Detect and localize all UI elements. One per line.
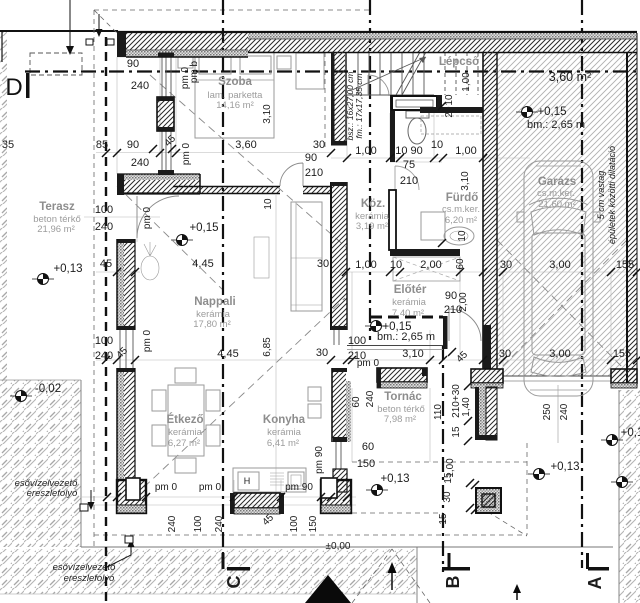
svg-text:C: C bbox=[224, 576, 244, 589]
svg-text:90: 90 bbox=[127, 58, 139, 70]
svg-text:3,00: 3,00 bbox=[549, 259, 570, 271]
svg-text:85: 85 bbox=[96, 139, 108, 151]
svg-text:35: 35 bbox=[2, 139, 14, 151]
svg-text:+0,15: +0,15 bbox=[537, 106, 566, 118]
svg-text:pm b: pm b bbox=[189, 60, 200, 83]
svg-text:B: B bbox=[443, 576, 463, 589]
svg-text:3,60 m²: 3,60 m² bbox=[549, 70, 591, 84]
svg-text:240: 240 bbox=[95, 221, 113, 233]
svg-text:4,45: 4,45 bbox=[217, 348, 238, 360]
svg-text:30: 30 bbox=[316, 347, 328, 359]
svg-text:pm 0: pm 0 bbox=[142, 329, 153, 352]
svg-text:60: 60 bbox=[455, 258, 466, 270]
svg-text:10: 10 bbox=[444, 94, 455, 106]
svg-text:60: 60 bbox=[362, 441, 374, 453]
svg-text:kerámia: kerámia bbox=[392, 297, 427, 308]
svg-text:Étkező: Étkező bbox=[166, 413, 203, 426]
svg-text:Szoba: Szoba bbox=[218, 76, 252, 88]
svg-text:H: H bbox=[244, 476, 251, 486]
svg-text:fm.: 17x17,35 cm: fm.: 17x17,35 cm bbox=[354, 73, 364, 138]
svg-text:6,41 m²: 6,41 m² bbox=[267, 438, 299, 449]
svg-text:1,00: 1,00 bbox=[461, 72, 472, 92]
svg-text:kerámia: kerámia bbox=[267, 427, 302, 438]
svg-text:60: 60 bbox=[351, 396, 362, 408]
svg-text:15: 15 bbox=[451, 426, 462, 438]
svg-text:ereszlefolyó: ereszlefolyó bbox=[27, 488, 78, 499]
svg-text:90: 90 bbox=[127, 139, 139, 151]
svg-text:±0,00: ±0,00 bbox=[326, 541, 351, 552]
svg-text:Tornác: Tornác bbox=[384, 391, 422, 403]
svg-text:Lépcső: Lépcső bbox=[439, 56, 479, 68]
svg-text:1,00: 1,00 bbox=[355, 145, 376, 157]
svg-text:pm 90: pm 90 bbox=[314, 446, 325, 474]
svg-text:D: D bbox=[5, 74, 22, 101]
svg-text:17,80 m²: 17,80 m² bbox=[193, 319, 231, 330]
svg-text:+0,13: +0,13 bbox=[53, 263, 82, 275]
svg-text:100: 100 bbox=[289, 515, 300, 532]
svg-text:1,00: 1,00 bbox=[355, 259, 376, 271]
svg-text:21,96 m²: 21,96 m² bbox=[37, 224, 75, 235]
svg-text:30: 30 bbox=[313, 139, 325, 151]
svg-text:pm 90: pm 90 bbox=[285, 482, 313, 493]
svg-text:Fürdő: Fürdő bbox=[446, 192, 479, 204]
svg-text:30: 30 bbox=[442, 491, 453, 503]
svg-text:pm 0: pm 0 bbox=[155, 482, 178, 493]
svg-text:5 cm vastag: 5 cm vastag bbox=[596, 171, 606, 220]
svg-text:pm 0: pm 0 bbox=[357, 358, 380, 369]
svg-text:100: 100 bbox=[193, 515, 204, 532]
svg-text:30: 30 bbox=[317, 258, 329, 270]
svg-text:155: 155 bbox=[616, 259, 634, 271]
svg-text:+0,1: +0,1 bbox=[621, 427, 640, 439]
svg-text:A: A bbox=[585, 577, 605, 590]
svg-text:240: 240 bbox=[131, 80, 149, 92]
svg-text:240: 240 bbox=[167, 515, 178, 532]
svg-text:Köz.: Köz. bbox=[361, 198, 385, 210]
svg-text:10: 10 bbox=[263, 198, 274, 210]
svg-text:90: 90 bbox=[305, 152, 317, 164]
svg-text:2,00: 2,00 bbox=[458, 292, 469, 312]
svg-text:+0,13: +0,13 bbox=[380, 473, 409, 485]
svg-text:100: 100 bbox=[348, 335, 366, 347]
svg-text:6,27 m²: 6,27 m² bbox=[168, 438, 200, 449]
svg-text:210: 210 bbox=[305, 167, 323, 179]
svg-text:150: 150 bbox=[308, 515, 319, 532]
svg-text:155: 155 bbox=[613, 348, 631, 360]
svg-text:7,98 m²: 7,98 m² bbox=[384, 414, 416, 425]
svg-text:3,19 m²: 3,19 m² bbox=[356, 221, 388, 232]
svg-text:30: 30 bbox=[500, 259, 512, 271]
svg-text:150: 150 bbox=[357, 458, 375, 470]
svg-text:pm 0: pm 0 bbox=[142, 206, 153, 229]
svg-text:250: 250 bbox=[542, 403, 553, 420]
svg-text:cs.m.ker.: cs.m.ker. bbox=[537, 188, 575, 199]
svg-text:210: 210 bbox=[400, 175, 418, 187]
svg-text:90: 90 bbox=[445, 290, 457, 302]
svg-text:+0,13: +0,13 bbox=[550, 461, 579, 473]
svg-text:bm.: 2,65 m: bm.: 2,65 m bbox=[377, 331, 435, 343]
svg-text:ereszlefolyó: ereszlefolyó bbox=[64, 573, 115, 584]
svg-text:7,40 m²: 7,40 m² bbox=[392, 308, 424, 319]
svg-text:bm.: 2,65 m: bm.: 2,65 m bbox=[527, 119, 585, 131]
svg-text:15: 15 bbox=[443, 472, 454, 484]
svg-text:240: 240 bbox=[214, 515, 225, 532]
svg-text:10: 10 bbox=[390, 259, 402, 271]
svg-text:3,10: 3,10 bbox=[402, 348, 423, 360]
svg-text:1,40: 1,40 bbox=[461, 397, 472, 417]
svg-text:30: 30 bbox=[499, 348, 511, 360]
svg-text:15: 15 bbox=[438, 513, 449, 525]
svg-text:75: 75 bbox=[403, 159, 415, 171]
svg-text:3,60: 3,60 bbox=[235, 139, 256, 151]
svg-text:Terasz: Terasz bbox=[39, 201, 75, 213]
svg-text:kerámia: kerámia bbox=[168, 427, 203, 438]
svg-text:240: 240 bbox=[131, 157, 149, 169]
svg-text:100: 100 bbox=[95, 204, 113, 216]
svg-text:pm 0: pm 0 bbox=[181, 142, 192, 165]
svg-text:20: 20 bbox=[444, 106, 455, 118]
svg-text:3,10: 3,10 bbox=[460, 171, 471, 191]
svg-text:3,10: 3,10 bbox=[262, 104, 273, 124]
svg-text:cs.m.ker.: cs.m.ker. bbox=[442, 204, 480, 215]
svg-text:Előtér: Előtér bbox=[394, 284, 427, 296]
svg-text:épületek közötti dilatáció: épületek közötti dilatáció bbox=[607, 146, 617, 244]
svg-text:3,00: 3,00 bbox=[549, 348, 570, 360]
svg-text:6,85: 6,85 bbox=[262, 337, 273, 357]
svg-text:Konyha: Konyha bbox=[263, 414, 306, 426]
svg-text:2,00: 2,00 bbox=[420, 259, 441, 271]
svg-text:110: 110 bbox=[433, 404, 444, 420]
svg-text:10 90: 10 90 bbox=[395, 145, 423, 157]
svg-text:6,20 m²: 6,20 m² bbox=[445, 215, 477, 226]
svg-text:4,45: 4,45 bbox=[192, 258, 213, 270]
svg-text:240: 240 bbox=[365, 390, 376, 407]
svg-text:Nappali: Nappali bbox=[194, 296, 236, 308]
svg-text:240: 240 bbox=[559, 403, 570, 420]
svg-text:pm 0: pm 0 bbox=[199, 482, 222, 493]
svg-text:-0,02: -0,02 bbox=[35, 383, 61, 395]
svg-text:21,60 m²: 21,60 m² bbox=[538, 199, 576, 210]
svg-text:1,00: 1,00 bbox=[455, 145, 476, 157]
svg-text:45: 45 bbox=[100, 258, 112, 270]
svg-text:10: 10 bbox=[431, 139, 443, 151]
svg-text:10: 10 bbox=[457, 230, 468, 242]
svg-text:100: 100 bbox=[95, 335, 113, 347]
svg-text:Garázs: Garázs bbox=[538, 176, 576, 188]
svg-text:+0,15: +0,15 bbox=[189, 222, 218, 234]
svg-text:240: 240 bbox=[95, 350, 113, 362]
svg-text:14,16 m²: 14,16 m² bbox=[216, 100, 254, 111]
